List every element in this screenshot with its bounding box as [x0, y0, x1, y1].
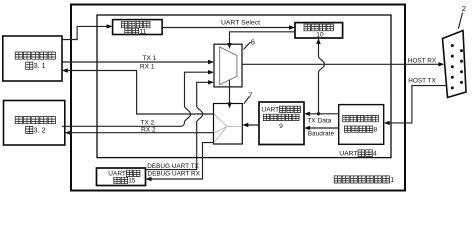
svg-text:6: 6 — [251, 37, 255, 46]
svg-text:10: 10 — [316, 32, 324, 39]
svg-text:3. 2: 3. 2 — [34, 125, 46, 134]
svg-text:9: 9 — [279, 123, 283, 130]
svg-text:DEBUG UART RX: DEBUG UART RX — [148, 171, 201, 178]
svg-text:TX 1: TX 1 — [143, 55, 157, 62]
svg-text:7: 7 — [248, 91, 252, 100]
svg-text:HOST TX: HOST TX — [408, 78, 436, 85]
svg-text:TX 2: TX 2 — [140, 119, 154, 126]
svg-text:15: 15 — [128, 178, 136, 185]
svg-text:11: 11 — [139, 29, 146, 36]
svg-text:4: 4 — [373, 150, 377, 157]
svg-text:2: 2 — [462, 4, 466, 13]
svg-text:UART: UART — [262, 106, 280, 113]
svg-text:8: 8 — [374, 126, 378, 133]
svg-text:3. 1: 3. 1 — [34, 61, 46, 70]
svg-text:TX Data: TX Data — [307, 117, 332, 124]
svg-text:DEBUG UART TX: DEBUG UART TX — [147, 163, 199, 170]
svg-text:HOST RX: HOST RX — [408, 57, 437, 64]
svg-text:UART Select: UART Select — [221, 20, 260, 27]
svg-text:1: 1 — [390, 177, 394, 184]
svg-text:RX 1: RX 1 — [140, 64, 155, 71]
svg-text:RX 2: RX 2 — [141, 126, 156, 133]
svg-text:Baudrate: Baudrate — [308, 131, 335, 138]
svg-text:UART: UART — [339, 150, 357, 157]
svg-text:UART: UART — [108, 171, 126, 178]
